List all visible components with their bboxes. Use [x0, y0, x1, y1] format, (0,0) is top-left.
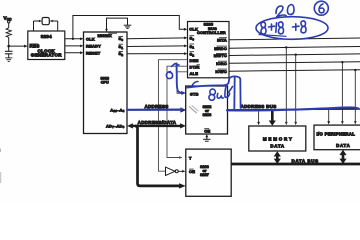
- svg-text:AD7–AD0: AD7–AD0: [106, 123, 125, 129]
- svg-text:CONTROLLER: CONTROLLER: [197, 30, 226, 35]
- node junction IORC: [341, 61, 343, 63]
- wire RESET 8284 to CPU: [65, 52, 82, 54]
- wire address drop to memory (thick): [271, 111, 274, 122]
- wire address drop to memory (thin): [258, 111, 260, 123]
- ground (latch OE): [203, 139, 210, 141]
- svg-text:DEN: DEN: [190, 58, 199, 63]
- svg-text:STB: STB: [190, 92, 199, 97]
- wire ADDRESS/DATA AD7-AD0 CPU to latch (bidirectional): [132, 125, 181, 127]
- svg-text:DATA: DATA: [336, 143, 350, 148]
- clock generator 8284: [28, 31, 65, 60]
- transceiver 8286/8287: [186, 149, 231, 196]
- svg-text:DATA: DATA: [270, 143, 284, 148]
- wire I/O data to data bus (bidirectional): [342, 153, 345, 162]
- svg-text:IORC: IORC: [216, 61, 227, 66]
- wire S1 CPU to 8288: [127, 45, 185, 48]
- node junction MRDC: [285, 46, 287, 48]
- svg-text:CLK: CLK: [86, 37, 95, 42]
- inverter (DEN to OE): [166, 167, 186, 175]
- scan smudges on left edge: [0, 149, 2, 184]
- wire READY 8284 to CPU: [65, 45, 82, 47]
- svg-text:T: T: [189, 155, 192, 160]
- svg-text:S2: S2: [119, 51, 124, 57]
- wire ADDRESS BUS latch to right edge: [228, 108, 360, 111]
- wire MN/MX to ground: [107, 18, 128, 31]
- svg-text:S1: S1: [119, 44, 124, 50]
- svg-text:A19–A8: A19–A8: [110, 107, 124, 113]
- wire ADDRESS A19-A8 CPU to latch: [127, 109, 182, 111]
- node junction MWTC: [295, 54, 297, 56]
- wire IOWC out: [229, 70, 360, 72]
- wire CLK 8284 to CPU: [65, 38, 82, 40]
- svg-text:IOWC: IOWC: [215, 69, 227, 74]
- wire ALE to latch STB: [177, 72, 188, 94]
- wire VCC to resistor: [8, 23, 10, 28]
- svg-text:S1: S1: [190, 44, 195, 50]
- ink small loop near DEN wire: [166, 72, 172, 79]
- ink trace over ADDRESS BUS: [227, 107, 359, 110]
- I/O peripheral block: [314, 125, 360, 150]
- svg-text:INTA: INTA: [217, 38, 227, 43]
- crystal X1: [34, 18, 58, 32]
- svg-text:S2: S2: [190, 52, 195, 58]
- resistor R (pull-up): [6, 28, 11, 38]
- wire OE stub to ground (arrow up into OE): [206, 136, 208, 139]
- svg-text:ALE: ALE: [190, 71, 199, 76]
- wire S0 CPU to 8288: [127, 37, 185, 40]
- handwriting circled "8+18+8": [256, 17, 328, 40]
- wire junction to 8284 RES pin: [9, 45, 25, 47]
- bus-width slash at latch address input: [189, 106, 197, 113]
- wire capacitor to ground: [8, 54, 10, 58]
- svg-text:ADDRESS: ADDRESS: [144, 104, 168, 109]
- wire DEN to inverter: [159, 60, 188, 172]
- blue ink annotations: [127, 1, 359, 111]
- wire resistor to junction and capacitor: [8, 37, 10, 51]
- memory block: [249, 126, 306, 151]
- node junction RES: [7, 45, 10, 48]
- ink trace over ADDRESS wire: [127, 109, 181, 111]
- ink trace along latch top and tall loop: [187, 76, 241, 108]
- wire MRDC out: [229, 47, 360, 49]
- ink hook above STB: [193, 81, 199, 84]
- svg-text:S0: S0: [190, 36, 195, 42]
- wire INTA out: [229, 38, 360, 40]
- handwriting circled 6: [314, 1, 328, 15]
- svg-text:RESET: RESET: [86, 50, 101, 55]
- svg-text:8287: 8287: [200, 172, 209, 177]
- wire memory data to data bus (bidirectional): [276, 154, 279, 161]
- svg-text:MWTC: MWTC: [214, 53, 227, 58]
- svg-text:MEMORY: MEMORY: [263, 137, 294, 142]
- svg-text:I/O PERIPHERAL: I/O PERIPHERAL: [317, 132, 356, 137]
- ink tick over DT/R wire: [172, 64, 180, 67]
- wire CLK to 8288 CLK (over CPU): [73, 16, 185, 39]
- svg-text:ADDRESS BUS: ADDRESS BUS: [241, 104, 277, 109]
- svg-text:OE: OE: [189, 169, 195, 174]
- wire S2 CPU to 8288: [127, 53, 185, 55]
- wire AD bus drop to transceiver: [135, 126, 180, 186]
- svg-text:OE: OE: [204, 129, 210, 134]
- svg-text:8284: 8284: [41, 34, 52, 39]
- wire address drop to I/O: [328, 110, 330, 122]
- svg-text:CLK: CLK: [189, 27, 198, 32]
- wire MRDC drop to memory: [286, 47, 355, 122]
- svg-text:GENERATOR: GENERATOR: [31, 53, 62, 58]
- wire IORC out: [229, 62, 360, 64]
- capacitor C: [5, 51, 13, 54]
- ground (below capacitor): [5, 58, 12, 62]
- svg-text:MRDC: MRDC: [214, 46, 227, 51]
- wire MWTC out: [229, 54, 360, 56]
- svg-text:READY: READY: [86, 44, 101, 49]
- ink trace ALE to STB: [177, 64, 183, 93]
- svg-text:DATA BUS: DATA BUS: [292, 159, 319, 164]
- latch 8282/8283: [186, 86, 228, 134]
- svg-text:CPU: CPU: [101, 80, 109, 84]
- ink handwriting "8ub" over latch: [210, 89, 216, 95]
- svg-text:S0: S0: [119, 36, 124, 42]
- node junction CLK: [72, 38, 74, 40]
- handwriting "20": [276, 6, 286, 17]
- CPU 8088: [84, 32, 128, 134]
- svg-text:DT/R: DT/R: [190, 65, 200, 70]
- node junction IOWC: [354, 69, 356, 71]
- wire DATA BUS transceiver to right edge: [231, 163, 360, 166]
- bus controller 8288: [188, 22, 230, 78]
- node VCC terminal: [4, 16, 13, 23]
- wire DT/R to transceiver T: [167, 66, 188, 157]
- ground (MN/MX): [124, 25, 132, 28]
- svg-text:8283: 8283: [203, 112, 212, 117]
- svg-text:ADDRESS/DATA: ADDRESS/DATA: [138, 120, 177, 125]
